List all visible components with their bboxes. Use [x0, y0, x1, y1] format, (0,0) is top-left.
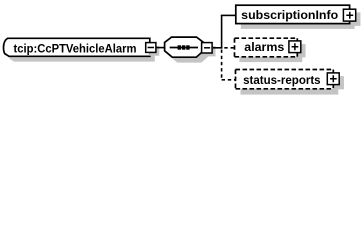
sequence dot 2: [182, 45, 185, 49]
element alarms white underlay: [235, 38, 298, 57]
expand box (plus) on subscriptionInfo: [343, 9, 355, 21]
element tcip:CcPTVehicleAlarm box: [4, 38, 150, 56]
plus sign: [330, 75, 337, 82]
collapse box (minus) on tcip:CcPTVehicleAlarm shadow: [149, 46, 159, 56]
wire sequence to branch trunk: [213, 47, 223, 49]
element subscriptionInfo box: [236, 5, 350, 23]
svg-text:tcip:CcPTVehicleAlarm: tcip:CcPTVehicleAlarm: [14, 42, 137, 56]
element status-reports shadow: [241, 75, 339, 94]
plus sign: [346, 12, 353, 19]
svg-text:subscriptionInfo: subscriptionInfo: [241, 8, 338, 22]
svg-text:alarms: alarms: [244, 40, 284, 54]
plus sign: [292, 43, 299, 50]
collapse box (minus) on tcip:CcPTVehicleAlarm: [146, 43, 156, 53]
sequence compositor shadow: [170, 43, 209, 63]
wire to subscriptionInfo: [221, 14, 236, 16]
dashed wire to status-reports: [222, 79, 235, 81]
element tcip:CcPTVehicleAlarm shadow: [9, 44, 155, 62]
minus sign: [148, 47, 154, 49]
collapse box (minus) on sequence shadow: [205, 46, 216, 56]
element alarms shadow: [240, 44, 303, 63]
expand box (plus) on alarms shadow: [292, 44, 305, 57]
expand box (plus) on status-reports shadow: [331, 76, 344, 89]
trunk solid up to subscriptionInfo branch: [221, 15, 223, 48]
element alarms dashed box: [235, 38, 298, 57]
collapse box (minus) on sequence: [202, 43, 213, 53]
element subscriptionInfo shadow: [241, 11, 355, 29]
expand box (plus) on status-reports: [327, 73, 339, 85]
sequence inner line: [170, 47, 198, 49]
sequence dot 3: [186, 45, 189, 49]
expand box (plus) on subscriptionInfo shadow: [347, 12, 361, 25]
trunk dashed down to status-reports branch: [221, 50, 223, 81]
sequence dot 1: [178, 45, 181, 49]
element status-reports white underlay: [236, 70, 334, 89]
dashed wire to alarms: [224, 47, 234, 49]
wire element to sequence: [156, 47, 165, 49]
expand box (plus) on alarms: [289, 41, 301, 53]
svg-text:status-reports: status-reports: [243, 73, 321, 87]
minus sign: [204, 47, 210, 49]
element status-reports dashed box: [236, 70, 334, 89]
sequence compositor octagon: [165, 37, 204, 57]
